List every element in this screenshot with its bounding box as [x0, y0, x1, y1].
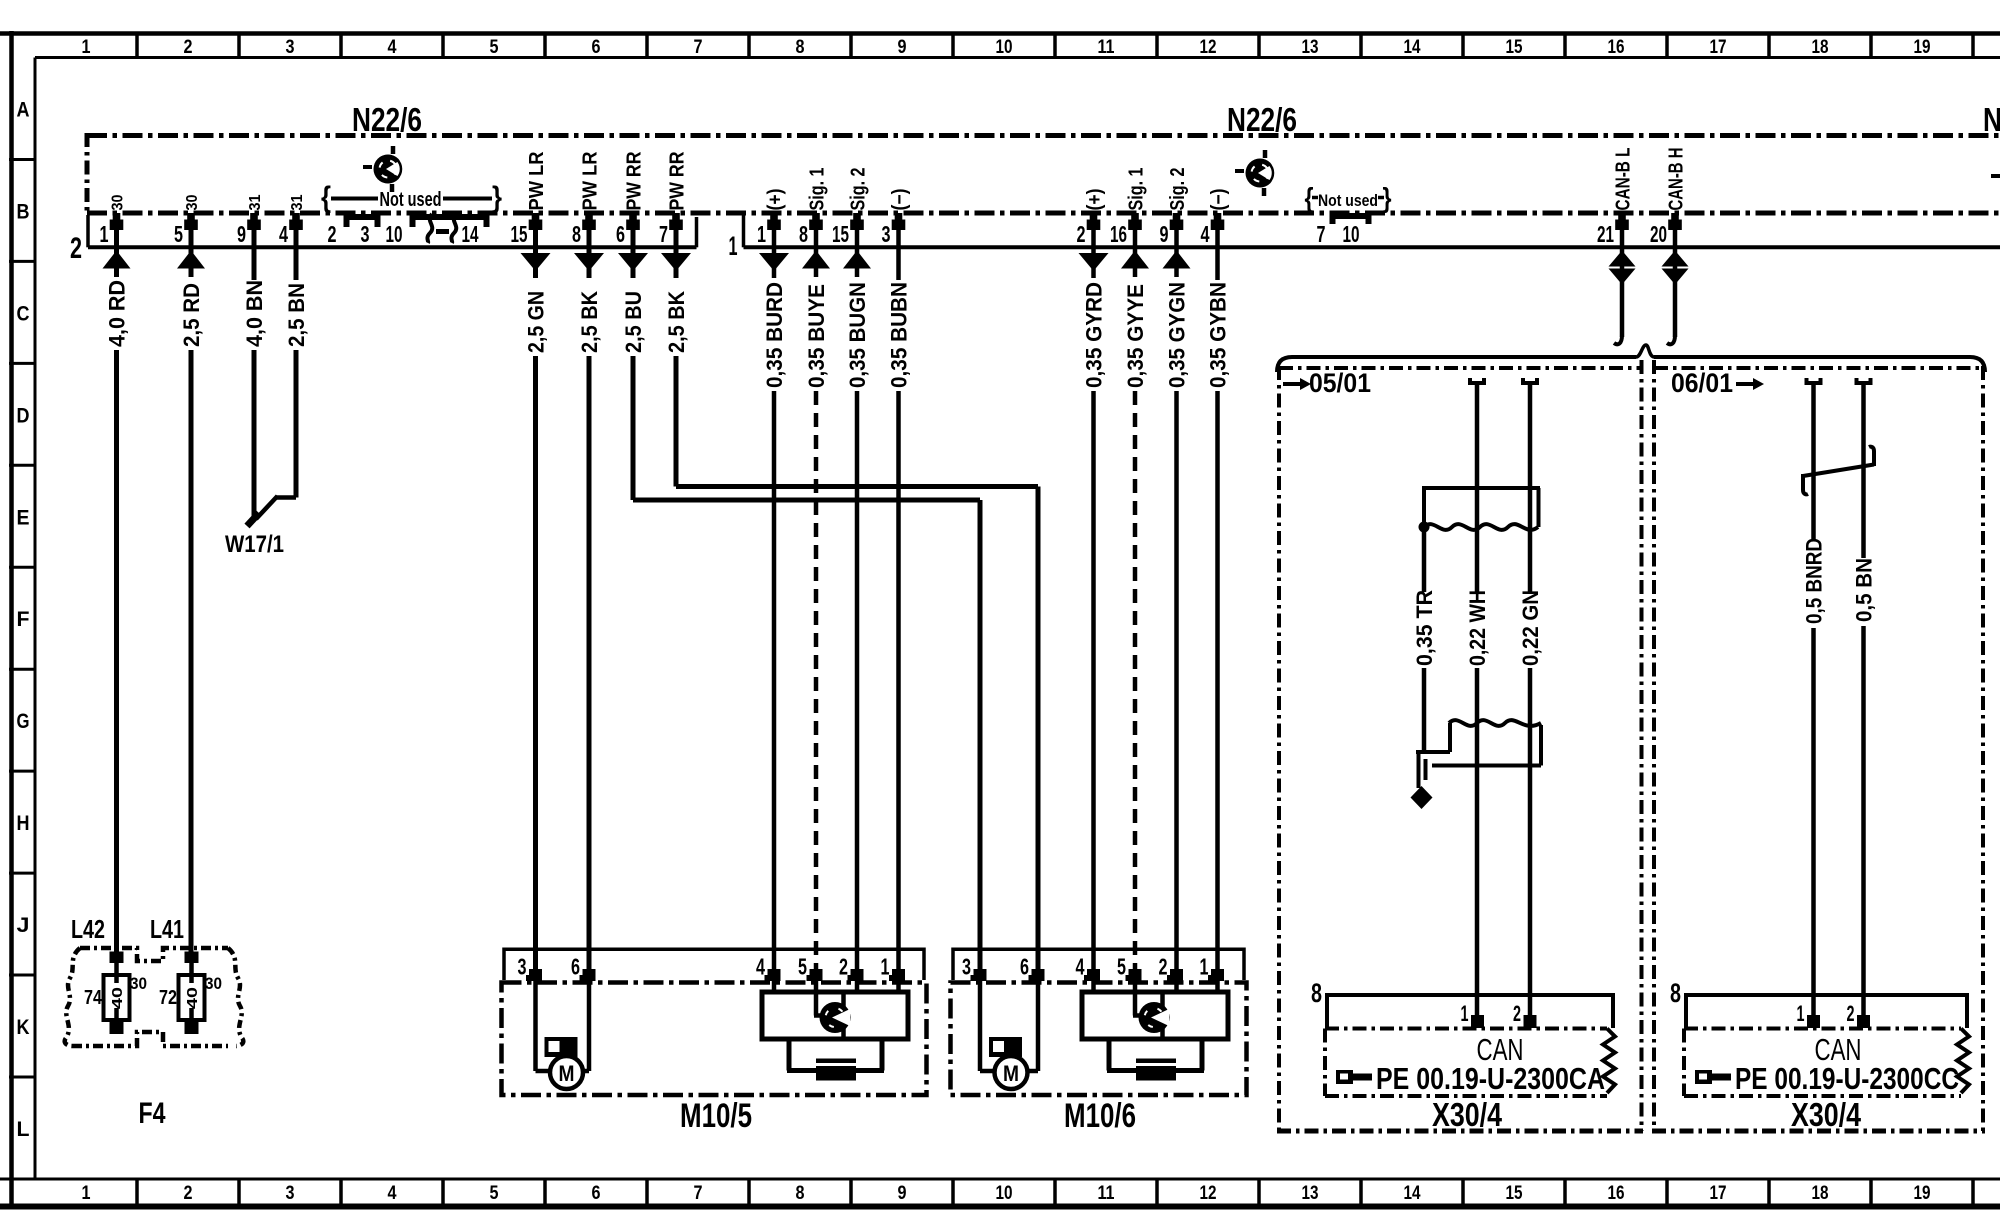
- svg-text:2: 2: [70, 232, 82, 265]
- svg-text:(+): (+): [765, 189, 787, 211]
- svg-text:J: J: [17, 914, 30, 937]
- svg-text:4,0 RD: 4,0 RD: [105, 280, 130, 347]
- svg-text:17: 17: [1710, 1183, 1727, 1204]
- svg-text:N22/6: N22/6: [1227, 101, 1297, 138]
- svg-text:PE 00.19-U-2300CA: PE 00.19-U-2300CA: [1376, 1061, 1605, 1096]
- svg-text:2,5 BN: 2,5 BN: [284, 283, 309, 347]
- svg-text:M: M: [1003, 1061, 1019, 1086]
- svg-text:2: 2: [184, 1183, 193, 1204]
- svg-text:3: 3: [286, 1183, 295, 1204]
- svg-text:L41: L41: [150, 914, 184, 944]
- svg-text:{: {: [321, 181, 331, 214]
- svg-text:14: 14: [1404, 37, 1421, 58]
- svg-text:W17/1: W17/1: [225, 531, 284, 558]
- svg-text:8: 8: [796, 1183, 805, 1204]
- svg-text:17: 17: [1710, 37, 1727, 58]
- svg-text:30: 30: [184, 194, 201, 210]
- svg-text:20: 20: [1650, 221, 1667, 247]
- svg-text:2: 2: [839, 954, 848, 980]
- svg-text:5: 5: [798, 954, 807, 980]
- svg-text:2: 2: [1513, 1001, 1521, 1026]
- svg-text:7: 7: [1317, 221, 1326, 247]
- svg-text:6: 6: [616, 221, 625, 247]
- svg-text:13: 13: [1302, 37, 1319, 58]
- svg-text:15: 15: [511, 221, 528, 247]
- svg-text:6: 6: [592, 37, 601, 58]
- svg-text:0,5 BNRD: 0,5 BNRD: [1802, 538, 1827, 624]
- svg-text:0,5 BN: 0,5 BN: [1852, 558, 1877, 622]
- svg-text:6: 6: [1020, 954, 1029, 980]
- svg-text:0,35 GYYE: 0,35 GYYE: [1123, 284, 1148, 388]
- svg-text:X30/4: X30/4: [1791, 1096, 1862, 1133]
- svg-text:30: 30: [110, 194, 127, 210]
- svg-text:8: 8: [572, 221, 581, 247]
- svg-text:40: 40: [109, 987, 126, 1009]
- svg-text:2: 2: [1847, 1001, 1855, 1026]
- svg-text:2: 2: [328, 221, 337, 247]
- svg-text:19: 19: [1914, 37, 1931, 58]
- svg-text:X30/4: X30/4: [1432, 1096, 1503, 1133]
- svg-text:40: 40: [184, 987, 201, 1009]
- svg-text:74: 74: [84, 987, 103, 1009]
- svg-text:G: G: [17, 710, 30, 733]
- svg-text:Not used: Not used: [1318, 191, 1378, 210]
- svg-text:12: 12: [1200, 37, 1217, 58]
- svg-text:B: B: [17, 200, 30, 223]
- svg-text:(−): (−): [889, 189, 911, 211]
- svg-text:N22/6: N22/6: [352, 101, 422, 138]
- svg-text:3: 3: [361, 221, 370, 247]
- svg-text:1: 1: [82, 1183, 91, 1204]
- svg-text:2,5 RD: 2,5 RD: [179, 283, 204, 347]
- svg-text:8: 8: [1311, 978, 1322, 1008]
- svg-text:L: L: [17, 1118, 30, 1141]
- svg-text:18: 18: [1812, 37, 1829, 58]
- svg-text:72: 72: [159, 987, 177, 1009]
- svg-text:19: 19: [1914, 1183, 1931, 1204]
- svg-text:30: 30: [130, 974, 147, 993]
- svg-text:16: 16: [1608, 1183, 1625, 1204]
- svg-text:Sig. 1: Sig. 1: [807, 168, 829, 211]
- svg-text:}: }: [492, 181, 502, 214]
- svg-text:7: 7: [694, 1183, 703, 1204]
- svg-text:4: 4: [1076, 954, 1085, 980]
- svg-text:4: 4: [1201, 221, 1210, 247]
- svg-text:31: 31: [289, 194, 306, 210]
- svg-text:2,5 BU: 2,5 BU: [621, 291, 646, 353]
- svg-text:PW RR: PW RR: [667, 151, 689, 210]
- svg-text:6: 6: [592, 1183, 601, 1204]
- svg-text:2,5 GN: 2,5 GN: [524, 291, 549, 353]
- svg-text:18: 18: [1812, 1183, 1829, 1204]
- svg-text:0,35 BUBN: 0,35 BUBN: [887, 282, 912, 388]
- svg-text:10: 10: [386, 221, 403, 247]
- svg-text:3: 3: [882, 221, 891, 247]
- svg-text:10: 10: [996, 1183, 1013, 1204]
- svg-text:14: 14: [1404, 1183, 1421, 1204]
- svg-text:4: 4: [756, 954, 765, 980]
- svg-text:15: 15: [1506, 37, 1523, 58]
- svg-text:4: 4: [388, 37, 397, 58]
- svg-text:(−): (−): [1208, 189, 1230, 211]
- svg-text:PW RR: PW RR: [624, 151, 646, 210]
- svg-text:0,35 GYGN: 0,35 GYGN: [1165, 282, 1190, 388]
- svg-text:3: 3: [286, 37, 295, 58]
- svg-text:0,22 WH: 0,22 WH: [1465, 590, 1490, 666]
- svg-text:2,5 BK: 2,5 BK: [577, 291, 602, 353]
- svg-text:30: 30: [205, 974, 222, 993]
- svg-text:0,35 BURD: 0,35 BURD: [762, 282, 787, 388]
- svg-text:1: 1: [82, 37, 91, 58]
- svg-text:N22/6: N22/6: [1983, 101, 2000, 138]
- svg-text:Not used: Not used: [380, 189, 442, 211]
- svg-text:1: 1: [100, 221, 109, 247]
- svg-text:PW LR: PW LR: [580, 151, 602, 211]
- svg-text:21: 21: [1597, 221, 1614, 247]
- svg-text:PE 00.19-U-2300CC: PE 00.19-U-2300CC: [1735, 1061, 1959, 1096]
- svg-text:4: 4: [388, 1183, 397, 1204]
- svg-text:F: F: [17, 608, 30, 631]
- svg-text:0,35 GYRD: 0,35 GYRD: [1082, 282, 1107, 388]
- svg-text:1: 1: [729, 231, 738, 261]
- svg-text:0,35 BUYE: 0,35 BUYE: [804, 284, 829, 388]
- svg-text:1: 1: [1200, 954, 1209, 980]
- svg-text:K: K: [17, 1016, 30, 1039]
- svg-text:C: C: [17, 302, 30, 325]
- svg-text:5: 5: [490, 37, 499, 58]
- svg-text:2: 2: [1159, 954, 1168, 980]
- svg-text:13: 13: [1302, 1183, 1319, 1204]
- svg-text:M10/6: M10/6: [1064, 1097, 1136, 1135]
- svg-text:(+): (+): [1084, 189, 1106, 211]
- svg-text:1: 1: [757, 221, 766, 247]
- svg-text:0,35 TR: 0,35 TR: [1412, 590, 1437, 666]
- svg-text:E: E: [17, 506, 30, 529]
- svg-text:M10/5: M10/5: [680, 1097, 752, 1135]
- svg-text:31: 31: [247, 194, 264, 210]
- svg-text:3: 3: [962, 954, 971, 980]
- svg-text:2: 2: [184, 37, 193, 58]
- svg-text:4,0 BN: 4,0 BN: [242, 280, 267, 347]
- svg-text:L42: L42: [71, 914, 105, 944]
- svg-text:6: 6: [571, 954, 580, 980]
- svg-text:8: 8: [796, 37, 805, 58]
- svg-text:8: 8: [799, 221, 808, 247]
- svg-text:0,35 BUGN: 0,35 BUGN: [845, 282, 870, 388]
- svg-text:0,22 GN: 0,22 GN: [1518, 590, 1543, 666]
- svg-text:M: M: [559, 1061, 575, 1086]
- svg-text:Sig. 2: Sig. 2: [848, 168, 870, 211]
- svg-text:11: 11: [1098, 37, 1115, 58]
- svg-text:5: 5: [1117, 954, 1126, 980]
- svg-text:7: 7: [694, 37, 703, 58]
- svg-text:5: 5: [174, 221, 183, 247]
- svg-text:06/01: 06/01: [1671, 368, 1733, 398]
- svg-text:16: 16: [1110, 221, 1127, 247]
- svg-text:05/01: 05/01: [1309, 368, 1371, 398]
- svg-text:H: H: [17, 812, 30, 835]
- svg-text:7: 7: [659, 221, 668, 247]
- svg-text:15: 15: [832, 221, 849, 247]
- svg-text:15: 15: [1506, 1183, 1523, 1204]
- svg-text:2: 2: [1077, 221, 1086, 247]
- svg-text:11: 11: [1098, 1183, 1115, 1204]
- svg-text:PW LR: PW LR: [526, 151, 548, 211]
- svg-text:F4: F4: [139, 1097, 166, 1130]
- svg-text:9: 9: [1160, 221, 1169, 247]
- svg-text:12: 12: [1200, 1183, 1217, 1204]
- svg-text:10: 10: [1343, 221, 1360, 247]
- svg-text:Sig. 1: Sig. 1: [1126, 168, 1148, 211]
- svg-text:D: D: [17, 404, 30, 427]
- svg-text:9: 9: [237, 221, 246, 247]
- svg-text:9: 9: [898, 1183, 907, 1204]
- svg-text:8: 8: [1670, 978, 1681, 1008]
- svg-text:A: A: [17, 98, 30, 121]
- svg-text:1: 1: [1797, 1001, 1805, 1026]
- svg-text:2,5 BK: 2,5 BK: [664, 291, 689, 353]
- svg-text:CAN-B H: CAN-B H: [1666, 148, 1688, 211]
- svg-text:CAN-B L: CAN-B L: [1613, 148, 1635, 211]
- svg-text:10: 10: [996, 37, 1013, 58]
- svg-text:0,35 GYBN: 0,35 GYBN: [1206, 282, 1231, 388]
- svg-text:1: 1: [1461, 1001, 1469, 1026]
- svg-text:14: 14: [462, 221, 479, 247]
- svg-text:1: 1: [881, 954, 890, 980]
- svg-text:16: 16: [1608, 37, 1625, 58]
- svg-text:4: 4: [279, 221, 288, 247]
- svg-text:9: 9: [898, 37, 907, 58]
- svg-text:3: 3: [518, 954, 527, 980]
- svg-text:5: 5: [490, 1183, 499, 1204]
- svg-text:Sig. 2: Sig. 2: [1167, 168, 1189, 211]
